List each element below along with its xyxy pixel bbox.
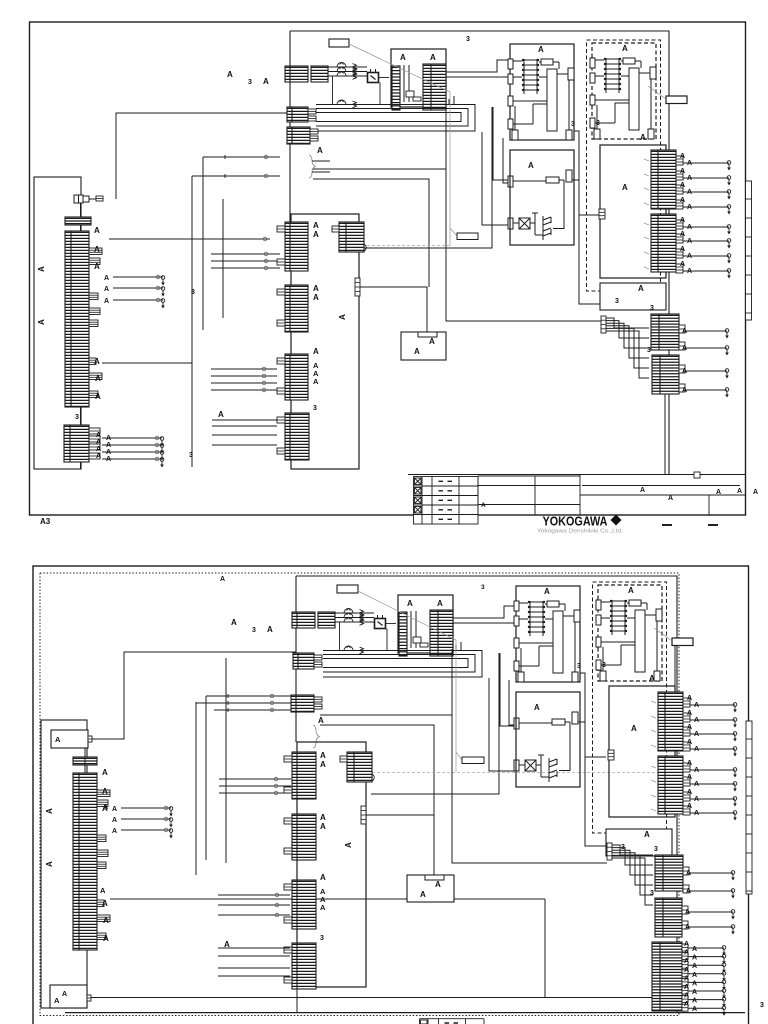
S1 CN-BL wire3	[102, 451, 162, 453]
S2 ac bottom line	[340, 629, 388, 651]
S2 fuse tag leader	[654, 628, 672, 641]
svg-text:A: A	[100, 886, 106, 895]
S1 circ b	[264, 174, 268, 178]
S2 U1 inner rect2	[420, 643, 428, 647]
S1 CN-C4 pin b	[277, 448, 285, 454]
svg-text:A: A	[682, 328, 687, 335]
svg-text:A: A	[687, 774, 692, 781]
S2 RL5 end2	[722, 954, 726, 964]
svg-text:A: A	[687, 253, 692, 260]
S1 fuse block	[65, 217, 91, 225]
S1 CN-BL circ1	[155, 436, 159, 440]
svg-text:A: A	[313, 377, 319, 386]
S1 fan wire 2	[606, 321, 649, 338]
tick	[651, 780, 656, 782]
svg-text:A: A	[102, 768, 108, 777]
S2 ac line 1	[335, 612, 374, 614]
S1 U1 out2	[446, 76, 510, 78]
S1 CN-BL wire1	[102, 437, 162, 439]
svg-text:A: A	[106, 442, 111, 449]
svg-text:A: A	[694, 702, 699, 709]
S2 bus down6	[489, 678, 515, 771]
S2 inner frame left seg	[295, 576, 297, 742]
S2 CN-C4 wire1	[218, 947, 290, 949]
S2 RL1 wire3	[690, 733, 735, 735]
S1 out conn RL1	[651, 150, 676, 209]
svg-text:A: A	[692, 955, 697, 962]
svg-text:3: 3	[602, 662, 606, 669]
svg-text:A: A	[692, 1006, 697, 1013]
S2 filter block1	[292, 612, 315, 628]
S2 end swL3	[169, 829, 173, 839]
S1 CN-C1 pin b	[277, 259, 285, 265]
choke humps	[344, 609, 353, 651]
tick	[651, 766, 656, 768]
svg-text:A: A	[267, 625, 273, 634]
S1 connector CN-left	[65, 231, 89, 407]
S2 RL5 end4	[722, 972, 726, 982]
brace	[313, 725, 320, 748]
S1 RL2 end1	[727, 225, 731, 235]
S2 U1 inner rect	[413, 637, 421, 643]
S2 ac line 2	[335, 617, 374, 619]
S2 RL5 end1	[722, 946, 726, 956]
choke humps	[337, 63, 346, 105]
S2 CN-C1 pin b	[284, 787, 292, 793]
S2 RL4 wire1	[688, 911, 733, 913]
S2 cross wire c	[214, 709, 291, 711]
svg-text:A: A	[687, 803, 692, 810]
tick	[644, 174, 649, 176]
tick	[651, 730, 656, 732]
S2 RL1 wire4	[690, 748, 735, 750]
S2 connector T3	[347, 752, 372, 782]
S2 RL2 end4	[733, 811, 737, 821]
S2 CN-left pin 6	[97, 900, 104, 907]
svg-text:A: A	[631, 724, 637, 733]
S2 B1 stub2	[314, 662, 322, 667]
S1 tag leader branch	[450, 228, 457, 236]
svg-text:A: A	[103, 804, 108, 811]
svg-text:A: A	[684, 941, 689, 948]
S2 bus loop C2	[323, 655, 475, 673]
S1 CN-BL end3	[160, 451, 164, 461]
svg-text:A: A	[692, 972, 697, 979]
svg-text:A: A	[649, 674, 655, 683]
S1 CN-BL end1	[160, 437, 164, 447]
S2 dist block B1	[293, 653, 314, 669]
S1 RL4 wire1	[685, 370, 727, 372]
svg-text:A: A	[95, 392, 101, 401]
S2 bus down5	[500, 653, 517, 726]
S1 RL4 pin1	[679, 365, 685, 373]
svg-text:3: 3	[650, 305, 654, 312]
S1 cross b	[223, 174, 227, 178]
svg-text:A: A	[420, 890, 426, 899]
svg-text:A: A	[102, 787, 108, 796]
S1 CN-BL wire4	[102, 458, 162, 460]
S1 CN-C4 wire2	[212, 425, 277, 427]
S2 CN-left pin 3	[97, 835, 106, 842]
tick	[644, 159, 649, 161]
svg-text:A: A	[481, 502, 486, 509]
S2 CN-C1 pin a	[284, 756, 292, 762]
S2 net x492	[371, 653, 499, 794]
svg-text:A: A	[687, 789, 692, 796]
S1 RL1 wire3	[683, 191, 729, 193]
S1 U1 col1	[403, 65, 405, 102]
S2 RL5 pin5	[682, 978, 688, 985]
S2 RL1 end1	[733, 703, 737, 713]
S1 connector CN-BL	[64, 425, 89, 462]
S2 part tag	[337, 585, 358, 593]
S2 CN-left pin 5	[97, 862, 106, 869]
S1 U1 inner rect2	[413, 97, 421, 101]
S2 RL3 end1	[731, 871, 735, 881]
svg-text:A: A	[227, 70, 233, 79]
S1 brace wire1	[312, 160, 330, 162]
S2 CN-C3 wire1	[218, 894, 290, 896]
S1 CN-left pin 7	[89, 373, 102, 380]
svg-text:A: A	[106, 456, 111, 463]
svg-text:3: 3	[615, 298, 619, 305]
S1 bus vert 1	[191, 176, 193, 467]
S2 U1 out2	[453, 622, 517, 624]
sheet 2 dotted frame	[40, 573, 679, 1016]
S1 B2 stub2	[310, 136, 318, 141]
S2 relay box pin	[88, 736, 92, 742]
S2 RL1 wire2	[690, 719, 735, 721]
S1 CN-C3 wire3	[211, 382, 277, 384]
svg-text:A: A	[684, 958, 689, 965]
S1 conn U1 left	[392, 66, 400, 110]
S1 long wire to CN-C1	[109, 238, 270, 240]
svg-text:A: A	[430, 53, 436, 62]
S1 RL1 end3	[727, 190, 731, 200]
svg-text:A: A	[106, 449, 111, 456]
S1 CN-BL drop	[80, 407, 82, 425]
S2 filter block2	[318, 612, 335, 628]
S1 circ a	[264, 155, 268, 159]
svg-text:3: 3	[760, 1002, 764, 1009]
S2 RL5 wire8	[688, 1007, 724, 1009]
S1 gray net	[367, 245, 450, 247]
S1 fan wire 4	[606, 326, 649, 358]
S2 cross b	[226, 701, 230, 705]
svg-text:A: A	[534, 703, 540, 712]
S1 CN-BL end2	[160, 444, 164, 454]
S1 left unit box	[34, 177, 81, 469]
S1 CN-BL pin1	[89, 428, 100, 434]
svg-text:A: A	[692, 989, 697, 996]
S2 T3 pin	[340, 756, 347, 762]
S1 A-pin wire mid	[102, 362, 192, 364]
S2 sensor wire L3	[121, 829, 171, 831]
S1 CN-left pin 8	[89, 391, 98, 398]
svg-text:A: A	[103, 916, 109, 925]
S1 DC-DC box	[401, 332, 446, 360]
svg-text:3: 3	[320, 935, 324, 942]
S2 CN-left pin 7	[97, 915, 110, 922]
S2 DC-DC notch	[425, 875, 444, 880]
S2 ac loop left	[339, 622, 341, 651]
svg-text:A: A	[338, 314, 347, 320]
S1 connector T3	[339, 222, 364, 252]
S1 U1 col2	[408, 65, 410, 102]
S2 out conn RL1	[658, 692, 683, 751]
S2 cross wire a	[206, 695, 291, 697]
S2 RL5 wire7	[688, 999, 724, 1001]
svg-text:A: A	[692, 946, 697, 953]
S2 RL5 pin8	[682, 1004, 688, 1011]
S2 RL4 end1	[731, 910, 735, 920]
S1 bus stub up1	[453, 96, 455, 105]
svg-text:A: A	[62, 991, 67, 998]
S1 end swL2	[161, 287, 165, 297]
S1 bus vert 3	[222, 199, 224, 318]
svg-text:A: A	[437, 599, 443, 608]
svg-text:A: A	[694, 717, 699, 724]
S1 ac line 2	[328, 71, 367, 73]
S2 RL2 pin3	[683, 792, 690, 801]
svg-text:A: A	[687, 695, 692, 702]
S1 B1 stub2	[308, 116, 316, 121]
svg-text:A: A	[344, 842, 353, 848]
S2 RL1 pin1	[683, 698, 690, 707]
S2 end swL1	[169, 807, 173, 817]
S2 fan wire 6	[612, 858, 653, 905]
S1 RL4 end2	[725, 388, 729, 398]
S1 fan wire 1	[606, 318, 649, 328]
svg-text:A: A	[263, 77, 269, 86]
svg-text:A: A	[682, 368, 687, 375]
S2 RL5 pin2	[682, 953, 688, 960]
svg-text:A: A	[694, 781, 699, 788]
S1 CN-left pin 2	[89, 258, 100, 265]
S1 R4 pin	[601, 316, 606, 333]
S1 inner frame top+right	[290, 31, 669, 474]
S2 RL2 pin2	[683, 777, 690, 786]
S2 sensor wire L2	[121, 818, 171, 820]
svg-text:A: A	[694, 746, 699, 753]
S1 riser to top hline	[116, 113, 288, 199]
S1 chain link4	[379, 77, 390, 79]
svg-text:A: A	[37, 319, 46, 325]
svg-text:A: A	[218, 410, 224, 419]
S1 fuse tag leader	[648, 86, 666, 99]
S2 RL5 end5	[722, 980, 726, 990]
S1 bottom rail	[408, 474, 745, 476]
S1 CN-C3 circ1	[262, 367, 266, 371]
S1 fan wire 5	[606, 328, 649, 368]
S2 net B2 to x446	[320, 714, 452, 716]
S2 IO board R3	[609, 686, 675, 817]
svg-text:A3: A3	[40, 517, 51, 526]
S2 R3 left pin	[608, 750, 614, 760]
S2 RL4 wire2	[688, 926, 733, 928]
S1 dashed group	[587, 40, 661, 291]
S1 cbox right pin	[355, 278, 360, 296]
S2 bus loop C3	[323, 659, 468, 668]
terminal strip	[746, 181, 752, 320]
S1 RL4 end1	[725, 369, 729, 379]
svg-text:A: A	[684, 975, 689, 982]
S2 CN-C3 circ1	[275, 893, 279, 897]
svg-text:A: A	[622, 183, 628, 192]
S2 RL1 wire1	[690, 704, 735, 706]
S2 AC unit U3	[596, 585, 662, 681]
S2 U4 left riser	[509, 680, 514, 725]
S1 fan wire 6	[606, 331, 649, 378]
svg-text:3: 3	[577, 663, 581, 670]
svg-text:A: A	[320, 751, 326, 760]
S1 aux box R4	[600, 283, 666, 310]
svg-text:A: A	[54, 996, 60, 1005]
S2 fan wire 5	[612, 855, 653, 895]
svg-text:A: A	[96, 439, 101, 446]
S2 out conn RL3	[655, 855, 683, 891]
S1 out conn RL4	[652, 355, 679, 394]
S2 circ stub3	[274, 791, 278, 795]
svg-text:3: 3	[313, 405, 317, 412]
S1 left drop a	[80, 203, 82, 231]
S1 DC-DC notch	[418, 332, 437, 337]
svg-text:A: A	[680, 153, 685, 160]
S2 connector CN-C2	[292, 814, 316, 860]
S2 RL1 end2	[733, 718, 737, 728]
S1 fuse tag	[666, 96, 687, 104]
svg-text:A: A	[680, 197, 685, 204]
S2 connector CN-C3	[292, 880, 316, 929]
svg-text:A: A	[753, 489, 758, 496]
S2 CN-C3 wire3	[218, 914, 290, 916]
S2 bus stub up2	[455, 645, 457, 651]
S2 fuse tag	[672, 638, 693, 646]
svg-text:A: A	[628, 586, 634, 595]
S1 inverter U4 internals	[508, 170, 579, 240]
svg-text:A: A	[680, 246, 685, 253]
S2 R4 pin	[607, 843, 612, 860]
S1 CN-BL pin2	[89, 436, 100, 442]
S2 RL2 wire3	[690, 798, 735, 800]
S1 RL4 pin2	[679, 384, 685, 392]
sheet 1 frame	[30, 22, 746, 515]
svg-text:A: A	[644, 830, 650, 839]
svg-text:A: A	[687, 724, 692, 731]
svg-text:A: A	[638, 284, 644, 293]
S1 breaker link	[89, 198, 96, 200]
S1 circ swL1	[156, 275, 160, 279]
S1 U1 out1	[446, 60, 510, 72]
S2 RL3 end2	[731, 889, 735, 899]
S2 RL5 wire2	[688, 956, 724, 958]
svg-text:A: A	[104, 275, 109, 282]
S1 RL1 wire1	[683, 162, 729, 164]
S2 relay box top-left	[51, 730, 88, 748]
S2 CN-C3 wire2	[218, 904, 290, 906]
svg-text:3: 3	[571, 121, 575, 128]
S2 RL2 wire4	[690, 812, 735, 814]
S1 stub wire 2	[211, 260, 280, 262]
S1 CN-BL pin3	[89, 444, 100, 450]
S1 drop below RL4	[664, 394, 666, 474]
ferrite marks	[360, 610, 364, 654]
inverter U4 box	[510, 150, 574, 245]
S2 cross c	[226, 708, 230, 712]
terminal strip	[746, 721, 752, 894]
S2 RL1 pin3	[683, 727, 690, 736]
tick	[651, 716, 656, 718]
S2 gray net	[372, 772, 660, 774]
svg-text:A: A	[414, 347, 420, 356]
svg-text:A: A	[320, 903, 326, 912]
svg-text:3: 3	[252, 627, 256, 634]
svg-text:A: A	[680, 231, 685, 238]
S2 RL5 pin6	[682, 987, 688, 994]
svg-text:A: A	[435, 880, 441, 889]
S2 connector CN-left	[73, 773, 97, 950]
S2 cross wire b	[196, 702, 291, 704]
S2 cbox stub bottom	[296, 987, 298, 1013]
S1 part tag	[329, 39, 349, 47]
svg-text:A: A	[686, 888, 691, 895]
svg-text:A: A	[538, 45, 544, 54]
S1 bus stub up2	[448, 99, 450, 105]
S1 RL1 pin2	[676, 171, 683, 180]
S2 out conn RL5	[652, 942, 682, 1011]
S2 circ c	[270, 708, 274, 712]
svg-text:A: A	[684, 967, 689, 974]
svg-text:A: A	[106, 435, 111, 442]
svg-text:A: A	[640, 133, 646, 142]
S1 fuse tag drop	[668, 104, 670, 146]
svg-text:A: A	[320, 822, 326, 831]
S1 AC unit U2	[508, 44, 574, 140]
sheet2 partial revision table	[420, 1019, 485, 1024]
svg-text:YOKOGAWA: YOKOGAWA	[543, 514, 609, 529]
S2 RL2 pin1	[683, 763, 690, 772]
S1 fan wire 3	[606, 323, 649, 348]
S2 RL1 pin2	[683, 713, 690, 722]
S1 CN-C1 pin a	[277, 226, 285, 232]
svg-text:A: A	[687, 224, 692, 231]
S1 circ swL2	[156, 286, 160, 290]
S1 CN-BL end4	[160, 458, 164, 468]
svg-text:A: A	[96, 446, 101, 453]
S1 connector CN-C4	[285, 413, 309, 460]
S2 B2 stub2	[314, 704, 322, 709]
S1 R3 left pin	[599, 209, 605, 219]
svg-text:A: A	[112, 806, 117, 813]
S1 RL2 pin2	[676, 234, 683, 243]
S1 CN-C3 pin a	[277, 358, 285, 364]
svg-text:A: A	[684, 993, 689, 1000]
S2 circ swL2	[164, 817, 168, 821]
S2 RL2 pin4	[683, 806, 690, 815]
S1 RL1 end2	[727, 176, 731, 186]
S1 sensor wire L1	[113, 276, 163, 278]
S1 dist block B2	[287, 127, 310, 144]
S1 end swL1	[161, 276, 165, 286]
S2 chain link4	[386, 623, 397, 625]
S2 CN-left pin 4	[97, 850, 108, 857]
tick	[644, 223, 649, 225]
S1 CN-BL circ2	[155, 443, 159, 447]
S2 RL2 end1	[733, 768, 737, 778]
S2 bus vert 1	[195, 702, 197, 875]
S2 inverter U4 internals	[514, 712, 585, 782]
svg-text:3: 3	[75, 414, 79, 421]
